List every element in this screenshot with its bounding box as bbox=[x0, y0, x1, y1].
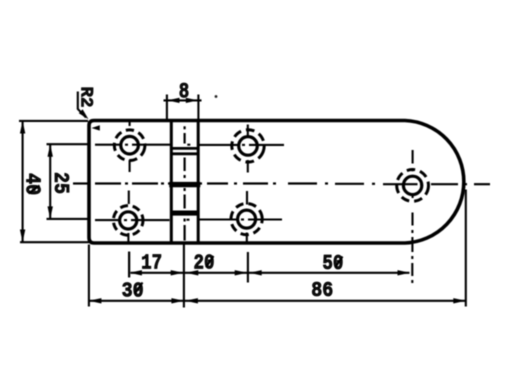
svg-text:8: 8 bbox=[179, 79, 190, 105]
svg-text:86: 86 bbox=[311, 280, 333, 303]
svg-text:20: 20 bbox=[194, 253, 215, 276]
svg-text:25: 25 bbox=[48, 172, 71, 194]
svg-text:30: 30 bbox=[122, 280, 144, 303]
svg-text:50: 50 bbox=[322, 253, 343, 276]
svg-text:R2: R2 bbox=[76, 87, 96, 108]
svg-text:17: 17 bbox=[141, 253, 162, 276]
